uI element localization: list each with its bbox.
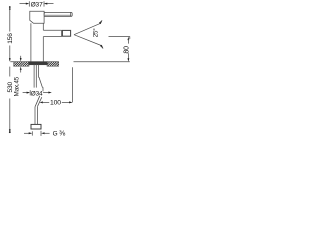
hose lower right line xyxy=(37,106,39,124)
spout divider xyxy=(61,30,63,36)
hose elbow left line xyxy=(35,96,40,107)
hose elbow right line xyxy=(38,97,42,106)
dim Ø37 right leader xyxy=(44,1,54,6)
svg-text:100: 100 xyxy=(50,100,61,107)
dim 100 right arrow xyxy=(62,101,73,103)
svg-text:Ø34: Ø34 xyxy=(31,90,43,97)
hose pipe upper xyxy=(38,64,40,77)
dim Ø34 right tick and arrow xyxy=(43,87,52,93)
svg-text:Ø37: Ø37 xyxy=(31,2,43,9)
aerator box xyxy=(62,30,70,36)
hose pipe diagonal xyxy=(39,77,43,88)
svg-text:Max.45: Max.45 xyxy=(13,76,20,96)
body right wall upper xyxy=(42,23,44,30)
hose lower left line xyxy=(34,107,36,125)
dim 100 right extension line xyxy=(72,67,74,102)
base flange xyxy=(29,62,48,65)
svg-text:530: 530 xyxy=(7,81,14,92)
dim Max45 bottom arrow xyxy=(20,67,22,73)
dim G3/8 right arrow xyxy=(41,131,50,136)
spout tube xyxy=(43,30,61,36)
dim 530 line xyxy=(9,67,11,134)
shank pipe left xyxy=(33,64,35,87)
lever inner line xyxy=(45,14,71,16)
shank pipe right xyxy=(35,64,37,87)
deck hatch right xyxy=(47,62,59,67)
dim G3/8 left arrow xyxy=(24,131,32,135)
dim 100 left arrow xyxy=(40,101,50,103)
svg-text:25°: 25° xyxy=(92,28,99,38)
dim 80 line xyxy=(128,37,130,62)
dim Ø37 left leader xyxy=(20,1,30,6)
deck reference line right xyxy=(74,61,130,63)
dim 156 line bottom arrow xyxy=(9,46,11,62)
body left wall xyxy=(30,23,32,62)
angle 25 upper line xyxy=(74,20,102,35)
deck surface line xyxy=(10,61,58,63)
svg-text:G ⅜: G ⅜ xyxy=(53,128,66,137)
svg-text:80: 80 xyxy=(123,46,130,54)
lever end cap xyxy=(70,13,72,17)
faucet head cap xyxy=(30,11,44,23)
body right wall lower xyxy=(42,37,44,62)
deck hatch left xyxy=(14,62,29,67)
dim Max45 top arrow xyxy=(20,56,22,62)
angle 25 lower line xyxy=(74,35,103,49)
lever handle xyxy=(44,12,72,16)
svg-text:156: 156 xyxy=(7,33,14,44)
hose nut xyxy=(31,124,41,129)
spout outlet reference line xyxy=(109,36,130,38)
dim 156 line top arrow xyxy=(9,6,11,31)
dim Ø34 left arrow xyxy=(23,90,31,95)
